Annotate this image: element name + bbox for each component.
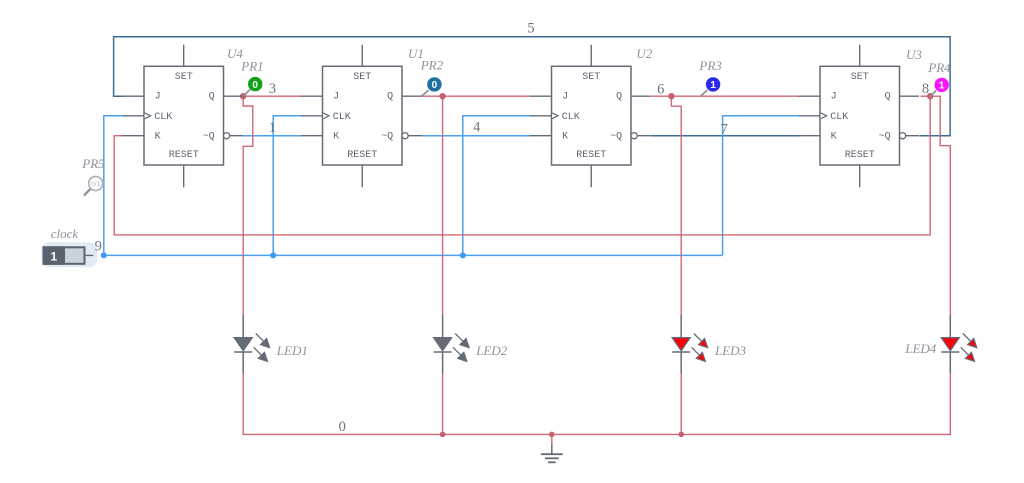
flip-flop U2: [530, 45, 651, 188]
wire Q U1 to J U2 (red): [422, 95, 531, 97]
probe PR2: [422, 77, 442, 96]
junction dot Q U2: [668, 93, 674, 99]
probe PR4: [930, 78, 949, 96]
svg-text:1: 1: [50, 249, 57, 263]
svg-text:LED2: LED2: [475, 343, 508, 358]
junction dot Q U4: [240, 93, 246, 99]
LED4: [941, 315, 976, 374]
junction dot clock node: [101, 252, 107, 258]
svg-text:PR1: PR1: [240, 59, 263, 74]
wire net 0 bottom bus LED1 to LED4 (red): [243, 374, 950, 435]
wire net 4: ~Q U1 to K U2 (light blue): [422, 135, 531, 137]
svg-text:1: 1: [269, 120, 276, 136]
LED3: [672, 315, 707, 374]
wire ground stub: [551, 434, 553, 444]
svg-text:0: 0: [432, 80, 438, 91]
svg-text:LED3: LED3: [714, 343, 747, 358]
wire net 1: ~Q U4 to K U1 (light blue): [242, 135, 302, 137]
svg-text:U3: U3: [906, 47, 922, 62]
svg-text:1: 1: [939, 81, 945, 92]
probe PR5: [84, 177, 103, 196]
svg-text:5: 5: [527, 21, 534, 37]
wire clock riser to U2 CLK: [463, 116, 531, 256]
ground symbol: [541, 445, 563, 463]
svg-text:PR4: PR4: [927, 60, 951, 75]
svg-text:PR2: PR2: [420, 57, 444, 72]
wire clock riser to U4 CLK: [104, 116, 123, 256]
svg-text:8: 8: [922, 81, 929, 97]
junction dot bus ground: [549, 432, 555, 438]
wire Q U4 down to LED1 with jog: [243, 96, 253, 315]
wire net 3: Q U4 to J U1 (red): [240, 95, 302, 97]
clock source highlight: [41, 242, 97, 267]
junction dot bus LED3: [678, 432, 684, 438]
probe PR1: [244, 77, 263, 96]
svg-text:9: 9: [95, 239, 102, 255]
svg-text:0: 0: [252, 80, 258, 91]
clock source switch body: [44, 247, 94, 263]
wire net 5 feedback: ~Q U3 to J U4 (navy): [114, 37, 951, 136]
svg-text:LED4: LED4: [904, 341, 937, 356]
wire LED3 bottom: [680, 374, 682, 435]
svg-text:1: 1: [710, 80, 716, 91]
wire clock riser to U3 CLK: [723, 116, 799, 256]
junction dot Q U1: [439, 93, 445, 99]
junction dot clock bus U2 riser: [460, 252, 466, 258]
flip-flop U3: [799, 45, 920, 188]
svg-text:6: 6: [657, 82, 664, 98]
svg-text:PR5: PR5: [81, 156, 105, 171]
wire Q U2 down to LED3 with jog: [671, 96, 681, 315]
svg-text:7: 7: [721, 122, 728, 138]
LED1: [234, 315, 269, 374]
svg-text:0/1: 0/1: [91, 181, 100, 188]
svg-text:U2: U2: [636, 46, 652, 61]
wire net 9 clock bus (light blue): [104, 254, 723, 256]
wire net 6: Q U2 to J U3 (red): [651, 95, 799, 97]
wire LED2 bottom: [442, 374, 444, 435]
junction dot bus LED2: [440, 432, 446, 438]
junction dot clock bus U1 riser: [270, 252, 276, 258]
svg-text:3: 3: [269, 81, 276, 97]
probe PR3: [701, 77, 720, 96]
wire clock riser to U1 CLK: [273, 116, 301, 256]
wire Q U3 to LED4 with jogs: [930, 96, 950, 315]
svg-text:LED1: LED1: [276, 343, 308, 358]
flip-flop U4: [123, 45, 244, 188]
svg-text:4: 4: [473, 120, 481, 136]
LED2: [434, 315, 469, 374]
svg-text:0: 0: [339, 419, 346, 435]
wire net 8: Q U3 to K U4 (red): [114, 96, 930, 235]
svg-text:PR3: PR3: [698, 58, 722, 73]
wire Q U1 down to LED2: [442, 96, 444, 315]
flip-flop U1: [301, 45, 422, 188]
wire net 7: ~Q U2 to K U3 (navy): [651, 135, 799, 137]
junction dot Q U3: [927, 93, 933, 99]
svg-text:clock: clock: [51, 226, 79, 241]
